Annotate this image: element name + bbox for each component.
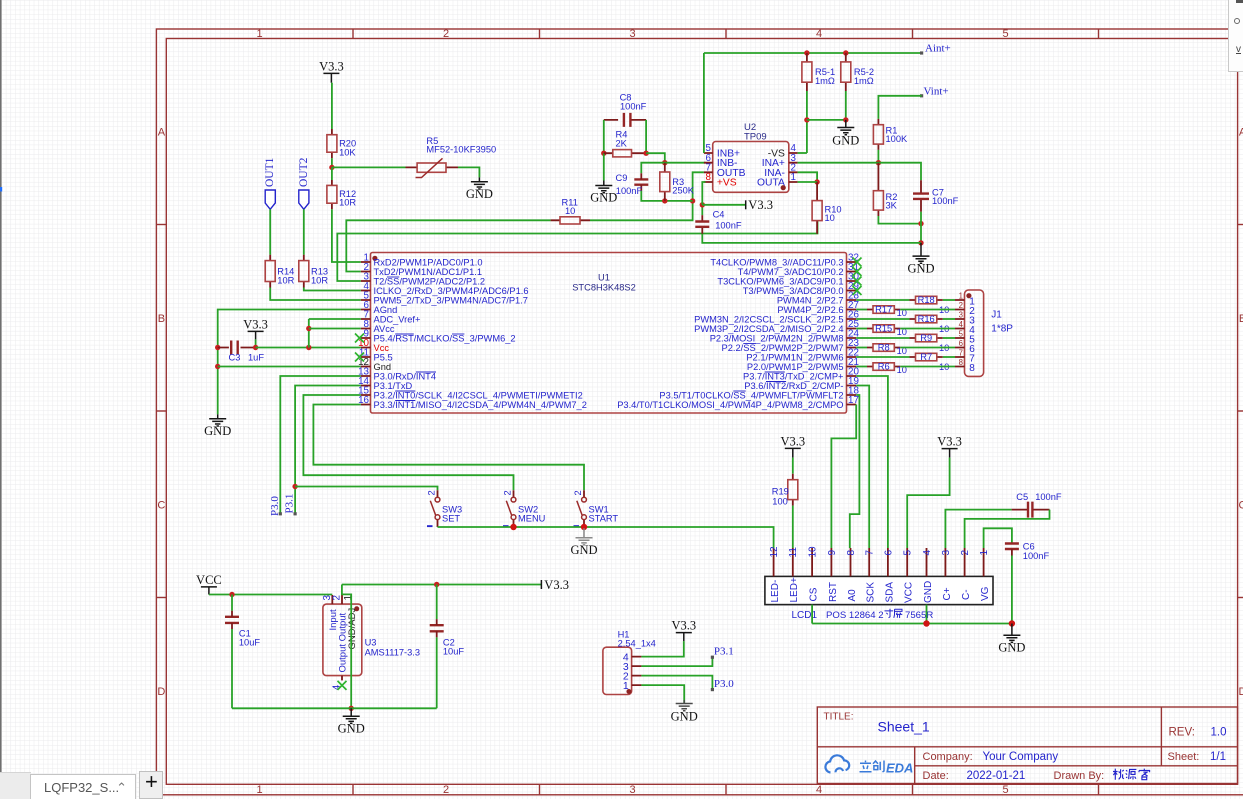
svg-text:GND: GND [671,709,698,723]
svg-text:P3.0/RxD/INT4: P3.0/RxD/INT4 [374,371,437,381]
junction dot R3 bottom [662,198,667,203]
frame column tick 3/4 top [725,29,727,39]
J1 pin names [969,296,975,374]
add sheet + button [139,771,163,799]
svg-text:10: 10 [808,546,819,558]
wire VCC to U3 Input [209,594,332,596]
svg-text:SCK: SCK [866,582,877,603]
left canvas edge line [0,0,2,799]
U2 pin numbers right [791,143,797,183]
svg-text:3: 3 [941,550,952,556]
bottom-left grey corner [0,772,31,799]
svg-text:P3.6/INT2/RxD_2/CMP-: P3.6/INT2/RxD_2/CMP- [744,381,843,391]
junction dot C7 bottom [918,221,923,226]
power flag V3.3 at H1 [676,633,692,642]
svg-text:GND: GND [998,641,1025,655]
svg-text:P5.4/RST/MCLKO/SS_3/PWM6_2: P5.4/RST/MCLKO/SS_3/PWM6_2 [374,333,516,343]
frame column tick 5/6 top [1098,29,1100,39]
svg-text:10uF: 10uF [239,637,261,647]
svg-text:P3.4/T0/T1CLKO/MOSI_4/PWM4P_4/: P3.4/T0/T1CLKO/MOSI_4/PWM4P_4/PWM8_2/CMP… [617,400,843,410]
U1 left pin stubs 1-16 [361,262,371,405]
wire LCD CS down to GND rail [811,605,813,624]
svg-text:GND: GND [590,191,617,205]
wire U1 pin27 to R17 [856,309,867,311]
svg-text:P3.0: P3.0 [269,496,281,516]
switch SW2 MENU [503,490,546,527]
svg-text:100nF: 100nF [715,221,742,231]
svg-text:Gnd: Gnd [374,362,392,372]
junction dot OUTA/R10 [814,179,819,184]
top-right floating panel [1228,0,1243,72]
H1 pin stubs [632,657,642,686]
junction dot SW1 bus [581,524,587,530]
U3 no-connect X pin 4 [338,681,347,690]
svg-text:8: 8 [706,172,712,183]
junction dot AGnd/Gnd row [215,364,220,369]
junction dot C2 top [434,582,439,587]
junction dot R5-1 top [804,50,809,55]
resistor R5-1 1mOhm [806,53,808,91]
wire H1 pin3 to P3.1 port [641,657,712,666]
U2 right pin stubs [789,153,798,182]
capacitor C9 100nF [634,179,648,184]
wire R12 to U1 pin 1 [332,209,361,262]
svg-text:TP09: TP09 [744,132,767,143]
svg-text:STC8H3K48S2: STC8H3K48S2 [572,283,636,293]
wire V3.3 rail bottom [342,584,542,586]
wire U1 pin28 to R18 [856,299,909,301]
wire OUT2 to R13 [303,209,305,255]
capacitor C7 100nF [920,180,922,212]
frame row tick C/D left [156,597,166,599]
U1 no-connect X pin 9 [355,334,364,343]
svg-text:100nF: 100nF [620,102,647,112]
wire U1 pin24 to R9 [856,337,909,339]
svg-text:R17: R17 [875,305,892,315]
svg-text:V3.3: V3.3 [780,434,805,448]
wire Vcc row to U1 pin 10 [256,347,361,349]
svg-text:8: 8 [969,363,975,374]
U1 no-connect X pin 11 [355,353,364,362]
svg-text:TxD2/PWM1N/ADC1/P1.1: TxD2/PWM1N/ADC1/P1.1 [374,267,483,277]
svg-text:C3: C3 [229,353,241,363]
wire R4 node to GND [603,153,605,180]
J1 pin-1 marker dot [966,293,971,298]
wire U1 pin 15 to SW2 [303,395,513,490]
svg-text:R18: R18 [918,295,935,305]
U2 polarity dot [781,185,786,190]
svg-text:MF52-10KF3950: MF52-10KF3950 [426,145,496,155]
H1 pin names [623,651,629,692]
junction dot V3.3/Vcc row [253,345,258,350]
svg-text:START: START [589,513,619,523]
svg-text:R6: R6 [878,362,890,372]
U1 left pin names [374,257,587,410]
svg-text:P2.0/PWM1P_2/PWM5: P2.0/PWM1P_2/PWM5 [747,362,844,372]
U3 pin stub bottom [341,676,343,681]
wire to U1 pin 7 ADC_Vref+ [309,318,361,320]
svg-text:VCC: VCC [196,573,222,587]
wire U2 pin3 INA+ to node and C7 [798,163,921,181]
svg-text:AVcc: AVcc [374,324,395,334]
wire R19 to LCD LED+ [792,506,794,548]
wire R5-1 bottom to U2 pin4 [806,91,808,153]
wire V3.3 to R19 [792,458,794,474]
U1 no-connect X pin 31 [853,267,862,276]
wire R20 to node [331,158,333,167]
junction dot AVcc branch [306,345,311,350]
wire C2 to GND rail [436,637,438,708]
svg-text:100nF: 100nF [1023,551,1050,561]
wire R2 bottom to C7 bottom [878,216,921,224]
svg-text:R16: R16 [918,314,935,324]
svg-text:R15: R15 [875,324,892,334]
capacitor C6 100nF [1005,544,1019,550]
voltage regulator U3 AMS1117-3.3 body [323,604,362,676]
wire AVcc/Vref branch vertical [308,319,310,348]
frame column tick 2/3 bottom [539,784,541,795]
junction dot AGnd/C3 [215,345,220,350]
wire C8 left to R4 node [603,120,605,153]
LCD pin numbers [769,546,990,558]
port tick P3.1 [294,512,297,515]
svg-text:AGnd: AGnd [374,305,398,315]
port tick P3.0 at H1 [711,688,714,691]
svg-text:OUT2: OUT2 [298,157,310,187]
wire R4 node to INB- node [646,153,665,163]
wire R5-2 bottom [845,91,847,120]
svg-text:LCD1: LCD1 [792,610,818,621]
net label Vint+ [920,94,923,97]
resistor R10 10 [816,182,818,234]
svg-text:2: 2 [573,490,583,495]
svg-text:PWM3P_2/I2CSDA_2/MISO_2/P2.4: PWM3P_2/I2CSDA_2/MISO_2/P2.4 [694,324,843,334]
svg-text:C+: C+ [942,587,953,600]
svg-text:7: 7 [865,550,876,556]
svg-text:VCC: VCC [904,582,915,603]
frame column tick 1/2 bottom [352,784,354,795]
U2 pin names [717,149,785,189]
U1 no-connect X pin 29 [853,286,862,295]
svg-text:RxD2/PWM1P/ADC0/P1.0: RxD2/PWM1P/ADC0/P1.0 [374,257,483,267]
svg-text:P5.5: P5.5 [374,352,393,362]
svg-text:1: 1 [979,550,990,556]
wire R18 to J1 pin1 [943,299,955,301]
junction dot P3.1/SW3 branch [292,484,297,489]
wire R7 to J1 pin7 [943,356,955,358]
wire LCD VCC to V3.3 [907,458,949,548]
wire U1 pin22 to R7 [856,356,909,358]
frame column tick 1/2 top [352,29,354,39]
wire U1 pin20 to LCD SDA [856,376,888,548]
svg-text:OUT1: OUT1 [264,157,276,187]
svg-text:CS: CS [809,587,820,601]
wire V3.3 to U3 pin2 and GND/ADJ [342,585,351,709]
wire U2 pin1 OUTA stub [798,181,818,183]
svg-text:1: 1 [791,172,796,183]
wire Vint+ to R1 [878,96,921,119]
LCD pin stubs [774,548,984,576]
svg-text:10uF: 10uF [443,646,465,656]
switch SW1 START [573,490,618,527]
H1 pin-1 marker dot [626,689,631,694]
svg-text:PWM4N_2/P2.7: PWM4N_2/P2.7 [777,295,844,305]
wire U1 pin25 to R15 [856,328,867,330]
capacitor C2 10uF [436,585,438,620]
wire R5 bottom rail [807,119,846,121]
svg-text:U3: U3 [365,637,377,647]
svg-text:P3.1: P3.1 [714,646,734,658]
MCU U1 body STC8H3K48S2 [371,253,847,414]
resistor R19 100 [792,474,794,506]
svg-text:LED-: LED- [770,580,781,603]
port tick P3.1 at H1 [711,656,714,659]
svg-text:4: 4 [922,550,933,556]
svg-text:2: 2 [332,595,343,600]
capacitor C1 10uF [231,595,233,611]
title block frame [817,707,1237,784]
junction dot LCD GND rail [923,620,929,626]
ground GND at U3 [343,708,360,723]
power flag V3.3 mid [745,200,747,209]
svg-text:1: 1 [343,595,354,600]
U1 right pin numbers [848,253,859,407]
svg-text:10: 10 [565,206,575,216]
wire LCD C+ to C5 [945,510,1011,548]
wire U1 pin18 to LCD A0 [850,395,860,548]
capacitor C4 100nF [701,215,703,234]
wire AGnd rail to U1 pin 6 [218,310,361,415]
ground GND at C8/R4 [595,181,612,193]
svg-text:GND: GND [204,424,231,438]
frame row tick B/C right [1238,410,1243,412]
wire -VS stub to R5-1 line [798,152,807,154]
svg-text:Vint+: Vint+ [924,85,949,97]
wire INB- node to U2 pin 6 [665,162,706,164]
power flag V3.3 top-left [323,73,339,82]
thermistor R5 MF52-10KF3950 [406,166,459,168]
wire U1 pin23 to R8 [856,347,867,349]
resistor R17 [867,309,900,311]
wire H1 pin1 to GND [641,685,684,703]
svg-text:T4CLKO/PWM8_3//ADC11/P0.3: T4CLKO/PWM8_3//ADC11/P0.3 [710,257,843,267]
frame column tick 4/5 bottom [912,784,914,795]
svg-text:4: 4 [959,320,964,329]
resistor R20 [331,129,333,158]
svg-text:10R: 10R [311,275,328,285]
U1 left pin numbers [358,253,369,407]
wire to U1 pin 8 AVcc [309,328,361,330]
resistor R6 [867,366,900,368]
resistor R4 2K [604,152,646,154]
svg-text:V3.3: V3.3 [243,317,268,331]
svg-text:GND: GND [832,133,859,147]
node dot R20/R12/R5 [329,165,334,170]
wire U1 pin 13 to P3.0 port [280,376,361,514]
svg-text:7565R: 7565R [905,610,933,621]
svg-text:V3.3: V3.3 [671,619,696,633]
svg-text:R8: R8 [878,343,890,353]
frame row tick A/B right [1238,224,1243,226]
wire R11 to U1 pin 2 [346,220,550,271]
power flag V3.3 right [540,580,542,589]
wire R1 to INA+ node [877,150,879,163]
svg-text:+VS: +VS [717,178,737,189]
wire C8 right / R4 right vertical [645,120,647,153]
svg-text:PWM4P_2/P2.6: PWM4P_2/P2.6 [777,305,843,315]
wire C4 rail [702,205,921,243]
svg-text:2: 2 [503,490,513,495]
resistor R13 [303,255,305,288]
switch SW3 SET [427,490,463,527]
junction dot C4 rail [918,240,923,245]
svg-text:Aint+: Aint+ [925,43,951,55]
ground GND left rail [209,414,226,426]
wire OUT1 to R14 [269,209,271,255]
svg-text:V3.3: V3.3 [319,60,344,74]
LCD connector body [765,576,993,604]
resistor R9 [910,337,943,339]
wire R16 to J1 pin3 [943,318,955,320]
svg-text:GND/ADJ: GND/ADJ [347,608,358,650]
bottom sheet tab LQFP32_S... [30,774,136,799]
svg-text:9: 9 [827,550,838,556]
svg-text:1*8P: 1*8P [991,324,1013,335]
power flag V3.3 at C3 [248,331,264,339]
svg-text:8: 8 [959,358,963,367]
svg-text:3K: 3K [886,201,898,211]
svg-text:2.54_1x4: 2.54_1x4 [618,639,656,649]
junction dot R4 left [601,151,606,156]
net flag OUT2 [299,190,309,209]
wire R17 to J1 pin2 [900,309,955,311]
svg-text:C5: C5 [1016,492,1028,502]
U3 pin stubs top [332,595,342,604]
frame row tick B/C left [156,410,166,412]
svg-text:P3.0: P3.0 [714,678,734,690]
svg-text:7: 7 [959,348,963,357]
svg-text:10R: 10R [339,198,356,208]
svg-text:SET: SET [442,513,460,523]
U1 no-connect X pin 32 [853,258,862,267]
wire R8 to J1 pin6 [900,347,955,349]
resistor R1 100K [877,119,879,150]
junction dot C6 rail [1009,620,1015,626]
wire R11 to OUTB node [590,172,704,220]
svg-text:GND: GND [570,543,597,557]
svg-text:P3.5/T1/T0CLKO/SS_4/PWMFLT/PWM: P3.5/T1/T0CLKO/SS_4/PWMFLT/PWMFLT2 [659,390,843,400]
resistor R18 [910,299,943,301]
svg-text:P3.3/INT1/MISO_4/I2CSDA_4/PWM4: P3.3/INT1/MISO_4/I2CSDA_4/PWM4N_4/PWM7_2 [374,400,587,410]
svg-text:GND: GND [907,262,934,276]
title block drawn by value [1113,769,1150,780]
svg-text:LED+: LED+ [789,577,800,602]
svg-text:T3CLKO/PWM6_3/ADC9/P0.1: T3CLKO/PWM6_3/ADC9/P0.1 [717,276,843,286]
wire R5 to GND [458,167,479,177]
svg-text:T4/PWM7_3/ADC10/P0.2: T4/PWM7_3/ADC10/P0.2 [738,267,844,277]
svg-text:2: 2 [427,490,437,495]
svg-text:V3.3: V3.3 [937,435,962,449]
svg-text:2: 2 [959,301,963,310]
wire SW3 branch [295,487,437,491]
svg-text:R9: R9 [920,333,932,343]
svg-text:Vcc: Vcc [374,343,390,353]
svg-text:GND: GND [923,581,934,603]
resistor R14 [269,255,271,288]
ground GND at R5 [471,177,488,189]
wire R6 to J1 pin8 [900,366,955,368]
port tick P3.0 [279,512,282,515]
frame column tick 4/5 top [912,29,914,39]
svg-text:3: 3 [959,310,963,319]
svg-text:P3.1: P3.1 [284,494,296,514]
wire U1 pin 16 to SW1 [313,405,584,491]
wire Aint+ net [704,52,922,54]
U2 left pin stubs [704,153,713,182]
svg-text:VG: VG [980,586,991,601]
svg-text:GND: GND [466,187,493,201]
svg-text:A0: A0 [847,589,858,602]
connector J1 body [965,290,984,376]
svg-text:C4: C4 [713,210,725,220]
resistor R2 3K [877,163,879,216]
wire C6 to GND rail [1011,556,1013,624]
wire U1 pin17 to LCD RST [831,405,856,549]
svg-text:T2/SS/PWM2P/ADC2/P1.2: T2/SS/PWM2P/ADC2/P1.2 [374,276,486,286]
junction dot OUTB/R3 rail [690,198,695,203]
wire R20 node to R12 [331,167,333,180]
frame column tick 2/3 top [539,29,541,39]
J1 pin stubs [955,300,965,367]
svg-text:PWM5_2/TxD_3/PWM4N/ADC7/P1.7: PWM5_2/TxD_3/PWM4N/ADC7/P1.7 [374,295,528,305]
svg-text:10K: 10K [339,147,356,157]
svg-text:GND: GND [338,722,365,736]
resistor R8 [867,347,900,349]
frame row tick C/D right [1238,597,1243,599]
resistor R5-2 1mOhm [845,53,847,91]
svg-text:5: 5 [903,550,914,556]
wire U1 pin 14 to P3.1 port [295,386,361,514]
svg-text:V3.3: V3.3 [748,198,773,212]
svg-text:RST: RST [828,582,839,602]
svg-text:2: 2 [960,550,971,556]
svg-text:12: 12 [769,546,780,558]
power flag VCC [201,587,217,595]
svg-text:J1: J1 [991,310,1002,321]
resistor R3 250K [664,163,666,201]
capacitor C8 100nF [604,119,646,121]
wire U1 pin26 to R16 [856,318,909,320]
svg-text:C-: C- [961,589,972,600]
wire C7 bottom to GND [920,212,922,243]
svg-text:10: 10 [825,213,835,223]
wire INB- node to C9 [641,163,665,174]
wire H1 pin4 to V3.3 [641,641,683,657]
wire C1 to GND rail [231,629,233,708]
op-amp U2 TP09 body [713,142,789,193]
wire LCD VG to C6 [984,528,1012,548]
svg-text:R19: R19 [772,487,789,497]
svg-text:ADC_Vref+: ADC_Vref+ [374,314,421,324]
net flag OUT1 [265,190,275,209]
svg-text:V3.3: V3.3 [544,578,569,592]
resistor R16 [910,318,943,320]
J1 pin numbers [959,291,964,367]
svg-text:P2.3/MOSI_2/PWM2N_2/PWM8: P2.3/MOSI_2/PWM2N_2/PWM8 [710,333,844,343]
svg-text:100: 100 [772,496,788,506]
svg-text:OUTA: OUTA [757,178,785,189]
net label Aint+ [920,51,923,54]
